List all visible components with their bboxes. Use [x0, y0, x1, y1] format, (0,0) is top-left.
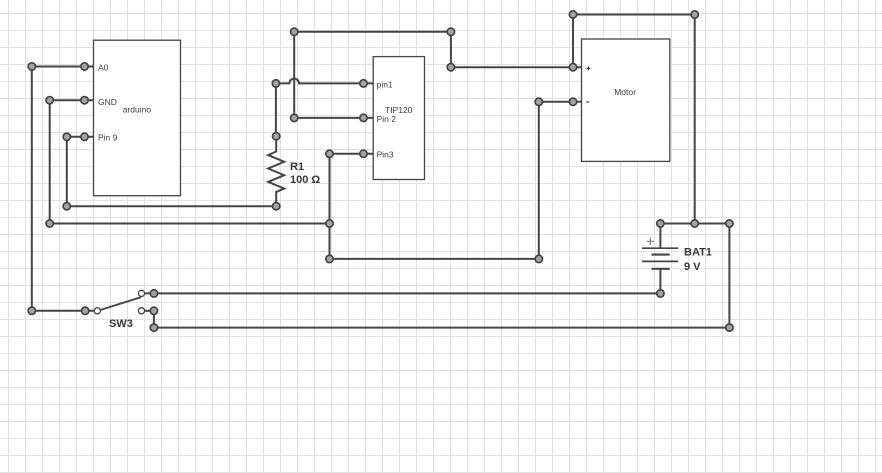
wire motor minus vertical [538, 102, 540, 259]
transistor TIP120 box [373, 57, 424, 180]
node battery top mid [691, 220, 698, 227]
wire pin1 with hop [276, 79, 373, 84]
arduino U box [94, 40, 181, 196]
wire Pin9 to R1 bottom [67, 205, 276, 207]
svg-text:SW3: SW3 [109, 318, 133, 330]
node GND pin [81, 97, 88, 104]
node R1 top [273, 133, 280, 140]
svg-text:Motor: Motor [614, 87, 636, 97]
wire switch throw1 stub [142, 292, 154, 294]
wire battery right vertical [728, 224, 730, 328]
switch throw2 open circle [138, 308, 144, 314]
wire battery plus terminal [659, 224, 661, 249]
node R1 bottom [273, 203, 280, 210]
node lower wire right [535, 255, 542, 262]
resistor R1 label [290, 161, 320, 186]
node top left wire b [447, 28, 454, 35]
wire vertical to motor plus [450, 32, 452, 67]
node motor minus pin [569, 98, 576, 105]
node bottom right [726, 324, 733, 331]
node switch left a [28, 307, 35, 314]
wire right vertical to battery row [694, 15, 696, 224]
node switch left b [82, 307, 89, 314]
node Pin9 bottom [63, 203, 70, 210]
node A0 left [28, 63, 35, 70]
node pin1 left [272, 80, 279, 87]
svg-text:Pin 9: Pin 9 [98, 132, 118, 142]
wire switch throw2 stub [142, 310, 154, 312]
node Pin9 pin [81, 133, 88, 140]
wire switch throw vertical [153, 311, 155, 328]
node battery top right [726, 220, 733, 227]
wire pin2 [294, 117, 373, 119]
wire vertical to pin2 [293, 32, 295, 118]
node top left wire a [291, 28, 298, 35]
wire GND horizontal to node [50, 223, 330, 225]
battery BAT1 label [684, 247, 712, 273]
svg-text:9 V: 9 V [684, 261, 701, 273]
wire battery top row [660, 223, 729, 225]
svg-text:GND: GND [98, 97, 117, 107]
wire battery minus terminal [659, 269, 661, 294]
wire pin3 [330, 153, 374, 155]
motor plus pin label [586, 66, 590, 70]
wire pin1 node to R1 top [275, 83, 277, 136]
switch SW3 lever [100, 297, 141, 310]
svg-text:Pin 2: Pin 2 [377, 114, 397, 124]
node battery top left [657, 220, 664, 227]
motor minus pin label [586, 101, 589, 103]
resistor R1 [268, 136, 284, 206]
svg-text:Pin3: Pin3 [377, 150, 394, 160]
wire motor minus stub [539, 101, 582, 103]
node pin2 [360, 114, 367, 121]
wire GND pin stub [50, 99, 94, 101]
wire switch common [32, 310, 94, 312]
node switch throw2 [150, 307, 157, 314]
wire pin3 vertical [329, 154, 331, 259]
wire top right segment [573, 14, 695, 16]
node motor plus left [447, 63, 454, 70]
battery BAT1 plates [642, 248, 678, 269]
wire GND vertical [49, 100, 51, 223]
wire top left segment [294, 31, 451, 33]
node switch bottom [150, 324, 157, 331]
svg-text:R1: R1 [290, 161, 304, 173]
node GND left [46, 97, 53, 104]
node switch throw1 [150, 290, 157, 297]
node pin1 [360, 80, 367, 87]
node motor minus left [535, 98, 542, 105]
wire motor plus horizontal [451, 66, 582, 68]
svg-text:arduino: arduino [123, 105, 152, 115]
node pin3 [360, 150, 367, 157]
svg-text:BAT1: BAT1 [684, 247, 712, 259]
wire A0 pin stub [32, 66, 94, 68]
wire motor plus top vertical [572, 15, 574, 68]
node top wire right [691, 11, 698, 18]
node lower wire left [326, 255, 333, 262]
node GND bottom left [46, 220, 53, 227]
svg-text:A0: A0 [98, 62, 109, 72]
node A0 pin [81, 63, 88, 70]
wire lower middle horizontal [330, 258, 539, 260]
node Pin9 left [63, 133, 70, 140]
node pin2 left [291, 114, 298, 121]
battery plus mark [647, 238, 654, 245]
motor M box [582, 39, 670, 161]
wire A0 vertical to switch [31, 67, 33, 311]
wire switch to battery minus [154, 292, 661, 294]
node battery minus [657, 290, 664, 297]
svg-text:pin1: pin1 [377, 79, 393, 89]
switch throw1 open circle [138, 290, 144, 296]
node pin3 left [326, 150, 333, 157]
wire Pin9 stub [67, 136, 94, 138]
node motor plus pin [569, 63, 576, 70]
svg-text:100 Ω: 100 Ω [290, 174, 320, 186]
switch pole open circle [94, 308, 100, 314]
wire bottom long [154, 327, 730, 329]
node top wire left [569, 11, 576, 18]
wire Pin9 vertical [66, 137, 68, 206]
node GND junction [326, 220, 333, 227]
